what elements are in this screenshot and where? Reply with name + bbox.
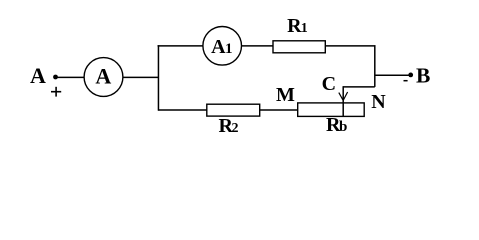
wire ammeter A to junction (123, 76, 159, 78)
svg-text:A: A (30, 63, 46, 88)
wire slider horizontal (343, 86, 375, 88)
resistor R1 (273, 41, 325, 53)
wire left junction vertical (157, 45, 159, 111)
svg-text:b: b (339, 119, 347, 135)
label Rb (326, 114, 347, 136)
svg-text:M: M (276, 84, 295, 106)
label R1 (287, 15, 308, 37)
svg-text:B: B (416, 64, 430, 88)
resistor R2 (207, 104, 260, 116)
terminal dot A (53, 75, 58, 80)
minus polarity mark (404, 80, 408, 82)
rheostat Rb (298, 103, 365, 117)
wire right vertical (374, 45, 376, 87)
svg-text:2: 2 (232, 121, 239, 136)
wire A terminal to ammeter A (57, 76, 84, 78)
terminal dot B (408, 73, 413, 78)
plus polarity mark (51, 87, 61, 97)
wire R1 to right corner (325, 45, 375, 47)
svg-text:A: A (211, 36, 226, 58)
svg-text:C: C (322, 73, 336, 95)
wire junction to R2 (158, 109, 207, 111)
svg-text:1: 1 (301, 21, 308, 36)
svg-text:A: A (95, 64, 111, 89)
wire R2 to rheostat (node M) (260, 109, 298, 111)
label R2 (218, 115, 238, 137)
wiper arrowhead (339, 92, 348, 100)
svg-text:1: 1 (225, 41, 233, 57)
wire A1 to R1 (242, 45, 274, 47)
ammeter A1 (U2) (203, 27, 242, 66)
wire slider vertical (wiper C) (342, 86, 344, 116)
svg-text:N: N (371, 91, 386, 113)
ammeter A (U1) (84, 58, 123, 97)
wire to terminal B (375, 74, 409, 76)
wire junction to ammeter A1 (158, 45, 204, 47)
